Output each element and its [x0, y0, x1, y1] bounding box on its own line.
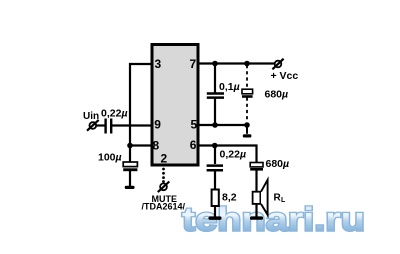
- svg-text:tehnari.ru: tehnari.ru: [182, 201, 365, 238]
- capacitor C 680u decoupling electrolytic: [242, 89, 253, 98]
- capacitor C 0,22u input: [106, 119, 112, 134]
- connector MUTE: [158, 182, 170, 193]
- wire pin5 ground stub: [246, 125, 248, 134]
- capacitor C 680u output electrolytic: [250, 163, 263, 171]
- watermark tehnari.ru: [182, 201, 365, 238]
- wire input to pin 9: [112, 124, 152, 126]
- ground speaker: [250, 216, 263, 219]
- svg-text:+ Vcc: + Vcc: [271, 70, 299, 82]
- svg-text:680µ: 680µ: [265, 89, 289, 101]
- svg-text:7: 7: [190, 57, 197, 71]
- wire dashed 680u branch: [246, 65, 248, 122]
- resistor R 8,2: [212, 190, 219, 207]
- connector +Vcc: [272, 59, 283, 70]
- node pin5/C 0,1u junction: [212, 122, 218, 128]
- svg-text:9: 9: [154, 118, 161, 132]
- svg-text:Uin: Uin: [83, 111, 99, 122]
- capacitor C 0,22u zobel: [207, 166, 223, 171]
- wire zobel branch: [214, 146, 216, 218]
- wire pin5: [198, 124, 247, 126]
- op-amp IC TDA2614: [152, 45, 198, 166]
- ground 8,2: [209, 216, 222, 220]
- svg-text:680µ: 680µ: [266, 158, 290, 170]
- svg-text:2: 2: [161, 151, 168, 165]
- svg-text:100µ: 100µ: [98, 151, 122, 163]
- wire 100u to ground: [129, 171, 131, 187]
- connector Uin: [87, 120, 99, 131]
- speaker RL: [253, 180, 268, 215]
- svg-text:8: 8: [153, 139, 160, 153]
- svg-text:3: 3: [155, 57, 162, 71]
- wire 0,1u branch: [214, 64, 216, 126]
- wire pin3 horizontal: [129, 63, 152, 65]
- wire vertical feedback line x=130: [129, 63, 131, 162]
- capacitor C 0,1u: [207, 94, 224, 98]
- ground 100u: [125, 186, 135, 189]
- svg-text:0,22µ: 0,22µ: [101, 108, 128, 120]
- node pin6/zobel junction: [212, 143, 218, 149]
- node pin8/feedback junction: [127, 143, 133, 149]
- svg-text:0,1µ: 0,1µ: [219, 81, 240, 93]
- node pin7/C 0,1u junction: [212, 61, 218, 67]
- svg-text:/TDA2614/: /TDA2614/: [142, 202, 186, 212]
- node pin5/680u junction: [244, 122, 250, 128]
- node pin7/680u junction: [244, 61, 250, 67]
- svg-text:0,22µ: 0,22µ: [220, 149, 247, 161]
- svg-text:6: 6: [190, 138, 197, 152]
- capacitor C 100u electrolytic: [123, 162, 137, 171]
- svg-text:5: 5: [191, 117, 198, 131]
- ground pin5: [243, 134, 252, 137]
- wire pin6: [198, 144, 257, 162]
- wire pin8: [130, 144, 152, 146]
- wire dotted pin2 mute: [162, 168, 165, 183]
- wire Uin connector to cap: [96, 124, 105, 126]
- wire pin7 to Vcc: [198, 62, 275, 64]
- wire speaker branch: [255, 171, 257, 218]
